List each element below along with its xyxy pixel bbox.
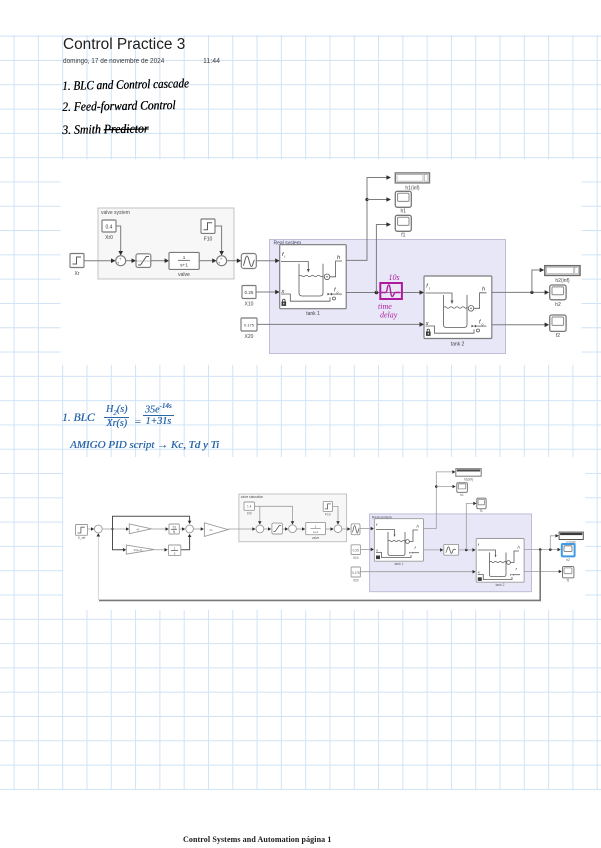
gain P triangle (d2) (129, 524, 151, 534)
group box: valve saturation (239, 494, 347, 542)
tank 1 subsystem (280, 245, 347, 317)
svg-text:h1(inf): h1(inf) (405, 186, 420, 192)
wire: response block to tank1 f_i (256, 258, 279, 263)
constant X10 (d2) (351, 545, 360, 560)
svg-text:h1(inf): h1(inf) (464, 478, 473, 482)
wire: gain P to Td block (d2) (151, 527, 168, 531)
transport delay block (d2) (444, 544, 459, 555)
svg-text:h2: h2 (566, 558, 570, 562)
svg-text:h: h (337, 255, 340, 261)
svg-text:tank 1: tank 1 (395, 562, 404, 566)
sum S3 (d2) (256, 525, 264, 533)
scope f2 (d2) (563, 567, 574, 583)
pink annotation: time delay text (378, 302, 398, 320)
svg-text:valve: valve (312, 536, 320, 540)
wire: gain K to sum3 (d2) (228, 527, 256, 531)
sum S1 (d2) (94, 525, 102, 533)
blue amigo line (70, 439, 219, 451)
wire: tank1 f_o to delay block (d2) (424, 548, 444, 552)
sum S2 (d2) (186, 525, 194, 533)
svg-text:Xr: Xr (75, 271, 80, 277)
wire: feedback loop to sum1 (d2) (99, 550, 540, 601)
wire: junction up to scope f1 (d2) (466, 502, 476, 550)
wire: F10 step to sum5 (d2) (333, 506, 340, 524)
transfer fcn valve (169, 252, 199, 278)
wire: F10 step down to sum2 (215, 226, 224, 256)
wire: Td block to sum2 (d2) (179, 527, 185, 531)
junction display branch (d2) (549, 548, 552, 551)
wire: tank2 f_o to scope f2 (492, 323, 549, 328)
svg-text:-K-: -K- (136, 528, 140, 532)
constant X20 (d2) (351, 567, 360, 582)
constant X20 (241, 318, 257, 340)
response/rate block (241, 254, 256, 269)
scope f2 (550, 315, 566, 339)
wire: saturation to transfer fcn valve (151, 258, 169, 263)
wire: sum5 to rate block (d2) (342, 527, 351, 531)
wire: TdN to sum2 bottom (d2) (181, 534, 192, 550)
scope f1 (395, 215, 411, 238)
wire: junction up to scope f1 (376, 222, 391, 292)
junction on f_o wire (375, 291, 379, 295)
svg-text:F10: F10 (325, 513, 331, 517)
constant Xr0 (d2) (244, 502, 255, 516)
tank 1 subsystem (d2) (374, 519, 423, 566)
wire: sum1 to saturation (126, 258, 136, 263)
display h2(inf) (d2) (559, 532, 583, 545)
wire: Xr step to sum1 (84, 258, 116, 263)
internal: pump to h output (330, 261, 342, 277)
purple area 2: Real system (370, 514, 532, 592)
wire: X20 const to tank2 x (257, 322, 424, 327)
sum S5 (d2) (334, 525, 342, 533)
tank 2 subsystem (d2) (476, 539, 524, 587)
wire: sum3 to saturation (d2) (264, 527, 271, 531)
step source Xref (d2) (76, 525, 88, 540)
svg-text:f2: f2 (567, 579, 570, 583)
wire: transfer fcn to sum2 (199, 258, 216, 263)
internal: drain valve (328, 293, 333, 296)
saturation block (d2) (272, 523, 283, 534)
svg-text:tank 1: tank 1 (306, 311, 320, 317)
handwritten note 2 (62, 98, 176, 115)
wire: junction to scope h1 (367, 197, 391, 202)
internal: x pipe to drain valve (426, 326, 475, 333)
blue formula line (62, 412, 95, 424)
svg-text:s+1: s+1 (313, 530, 318, 534)
wire: tank1 h up to display h1(inf) (d2) (424, 470, 456, 528)
constant Xr0 (102, 220, 116, 241)
step source F10 (d2) (323, 501, 332, 516)
wire: branch up to display h2(inf) (d2) (550, 534, 558, 550)
svg-text:valve: valve (178, 272, 190, 278)
junction branch point (d2) (111, 528, 113, 530)
step source F10 (201, 219, 215, 243)
svg-text:+: + (117, 261, 120, 266)
junction on f_o wire (d2) (465, 549, 468, 552)
wire: tank2 h to scope h2 (492, 290, 549, 295)
svg-text:s+1: s+1 (180, 262, 188, 267)
svg-text:f1: f1 (480, 509, 483, 513)
handwritten note 3 (62, 121, 148, 138)
white screenshot backing 1 (61, 159, 582, 364)
svg-text:1: 1 (183, 255, 186, 260)
saturation block (136, 254, 151, 268)
gain D triangle (d2) (126, 545, 154, 554)
wire: feedback rise to sum1 bottom (d2) (97, 533, 101, 600)
svg-text:X20: X20 (245, 334, 254, 340)
scope f1 (d2) (477, 498, 486, 513)
svg-text:-K-: -K- (209, 528, 213, 532)
svg-text:1.4: 1.4 (247, 505, 252, 509)
wire: branch D path bottom (d2) (113, 529, 127, 552)
internal: drain valve (472, 325, 477, 328)
svg-text:0.175: 0.175 (352, 571, 360, 575)
internal: inlet pipe (281, 262, 308, 271)
purple area: Real system (270, 240, 506, 354)
wire: sum4 to tf valve (d2) (296, 527, 305, 531)
display h2(inf) (545, 266, 580, 284)
wire: gain D to TdN block (d2) (154, 548, 167, 552)
wire: tank1 h up to display h1(inf) (346, 175, 391, 260)
svg-text:+: + (218, 261, 221, 266)
scope h2 (550, 285, 566, 308)
svg-text:0.4: 0.4 (106, 224, 113, 230)
svg-text:1: 1 (174, 547, 176, 551)
step source Xr (70, 254, 84, 278)
wire: tank2 f_o to scope f2 (d2) (524, 570, 562, 574)
internal: water wavy line (299, 275, 323, 277)
wire: tank2 h to blue scope (d2) (524, 548, 561, 552)
group box: valve system (98, 208, 234, 279)
svg-text:f1: f1 (401, 233, 405, 239)
svg-text:h1: h1 (460, 493, 464, 497)
TdN block (d2) (168, 545, 180, 555)
internal: x pipe to drain valve (281, 294, 330, 301)
sum S4 (d2) (289, 525, 297, 533)
internal: tank walls (299, 264, 323, 296)
svg-text:Xr0: Xr0 (105, 235, 113, 241)
junction feedback (d2) (539, 548, 542, 551)
display h1(inf) (d2) (456, 469, 481, 482)
svg-text:tank 2: tank 2 (496, 583, 505, 587)
wire: tank1 f_o to tank2 f_i (346, 290, 424, 295)
wire: Xr0 const down to sum1 (116, 226, 123, 256)
wire: X10 const to tank1 x (256, 290, 280, 295)
svg-text:10s: 10s (389, 273, 400, 282)
internal: pump circle (324, 274, 330, 280)
rate/response block (d2) (351, 524, 360, 535)
wire: X10 to tank1 x (d2) (360, 548, 374, 552)
svg-text:F10: F10 (204, 237, 213, 243)
wire: step to sum1 (d2) (87, 527, 94, 531)
wire: junction to scope h1 (d2) (436, 485, 455, 489)
wire: sum1 to gain P (d2) (103, 527, 130, 531)
wire: delay to tank2 f_i (d2) (459, 548, 476, 552)
svg-text:f2: f2 (556, 333, 560, 339)
svg-text:X10: X10 (245, 302, 254, 308)
gain K big triangle (d2) (204, 523, 228, 537)
pink annotation: delay box (380, 283, 402, 299)
wire: junction up to display h2(inf) (532, 268, 544, 293)
svg-text:Xr0: Xr0 (247, 512, 252, 516)
white screenshot backing 2 (63, 457, 585, 610)
internal: pump circle (468, 306, 474, 312)
svg-text:delay: delay (380, 311, 398, 320)
internal: padlock (426, 332, 431, 336)
svg-text:h: h (482, 287, 485, 293)
svg-text:X_ref: X_ref (78, 536, 86, 540)
scope h2 selected blue (d2) (562, 544, 575, 562)
constant X10 (242, 286, 256, 308)
wire: sum2 to gain K (d2) (194, 527, 204, 531)
title (63, 36, 185, 54)
svg-text:0.175: 0.175 (244, 323, 254, 328)
sum S2 (217, 256, 227, 266)
transfer fcn valve (d2) (306, 522, 326, 540)
wire: const Xr0 to sum3 and sum4 (d2) (255, 506, 295, 524)
wire: sum2 to response block (227, 258, 242, 263)
sum S1 (116, 256, 126, 266)
junction on h1 wire (365, 198, 368, 201)
footer (183, 835, 331, 844)
internal: padlock (282, 302, 287, 306)
wire: tf valve to sum5 (d2) (326, 527, 334, 531)
date line (63, 58, 164, 65)
svg-text:valve system: valve system (101, 210, 130, 216)
scope h1 (395, 191, 411, 214)
svg-text:0.25: 0.25 (245, 290, 254, 295)
svg-text:tank 2: tank 2 (451, 342, 465, 348)
Td block (d2) (169, 524, 179, 534)
pink annotation: 10s text (389, 273, 400, 282)
tank 2 subsystem (424, 276, 492, 348)
svg-text:X10: X10 (353, 556, 359, 560)
svg-text:h2: h2 (555, 302, 561, 308)
wire: X20 to tank2 x (d2) (360, 570, 475, 574)
internal: pump to h output (474, 293, 487, 309)
internal: tank walls (444, 295, 468, 328)
svg-text:0.25: 0.25 (353, 549, 359, 553)
scope h1 (d2) (457, 483, 468, 497)
internal: water wavy line (444, 307, 468, 309)
svg-text:X20: X20 (353, 578, 359, 582)
display h1(inf) (395, 173, 429, 192)
svg-text:-K(s+1)-: -K(s+1)- (133, 548, 143, 552)
junction on h2 wire (530, 291, 533, 294)
svg-text:h2(inf): h2(inf) (555, 278, 570, 284)
svg-text:valve saturation: valve saturation (241, 495, 264, 499)
handwritten note 1 (62, 76, 189, 94)
internal: inlet pipe (426, 293, 453, 302)
junction on h1 wire (d2) (435, 485, 438, 488)
svg-text:h1: h1 (401, 209, 407, 215)
wire: rate block to tank1 f_i (d2) (360, 527, 374, 531)
wire: saturation to sum4 (d2) (282, 527, 288, 531)
wire: branch P path top (d2) (113, 516, 192, 529)
